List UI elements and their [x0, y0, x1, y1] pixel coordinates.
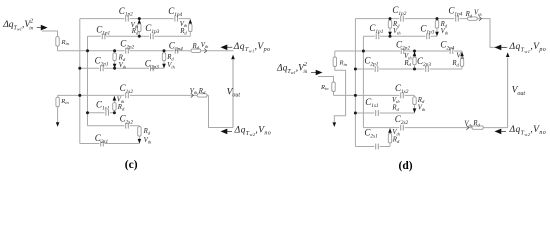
svg-text:Rd: Rd — [143, 128, 151, 135]
capacitor C2p3 — [145, 59, 159, 72]
wire rail E — [88, 125, 140, 127]
output bottom arrow dq Vno — [221, 126, 272, 138]
svg-text:Vth: Vth — [418, 104, 426, 111]
svg-text:Vth: Vth — [464, 121, 472, 128]
capacitor C1p2 (d) — [392, 5, 406, 22]
ground terminal arrow — [56, 122, 60, 127]
branch Rd Vth A-B no.1 — [113, 49, 127, 70]
capacitor C2p1 (d) — [364, 55, 379, 72]
node input label dq_Tw1 Vin2 — [2, 19, 33, 32]
capacitor C2p2 (d) — [396, 40, 410, 55]
svg-text:C1s1: C1s1 — [96, 100, 110, 112]
node junction dots buses (d) — [354, 50, 365, 115]
svg-text:Rd: Rd — [166, 54, 174, 61]
resistor Rd on rail A — [191, 42, 209, 53]
resistor Rin (d input) — [320, 82, 335, 92]
wire rail D — [88, 112, 115, 114]
wire rail D (d) — [355, 112, 414, 114]
svg-text:Vth: Vth — [144, 137, 152, 144]
wire rail B — [80, 67, 164, 69]
wire bus1 left — [79, 19, 81, 144]
resistor Rd on rail C — [190, 88, 207, 98]
svg-text:Vout: Vout — [512, 86, 526, 97]
svg-text:in: in — [29, 27, 33, 32]
wire rail C (d) — [334, 94, 415, 96]
svg-text:Vth: Vth — [392, 97, 400, 104]
svg-text:Rd: Rd — [118, 55, 126, 62]
svg-text:Vout: Vout — [227, 87, 241, 98]
svg-text:C2p2: C2p2 — [120, 39, 134, 51]
svg-text:C2p1: C2p1 — [95, 56, 109, 68]
wire rail F (d) — [355, 146, 390, 148]
svg-text:C2s2: C2s2 — [120, 114, 134, 126]
branch Rd Vth C-D — [113, 95, 126, 114]
wire rail T2 — [88, 35, 191, 37]
svg-text:C1p4: C1p4 — [168, 6, 182, 18]
capacitor C2s1 — [95, 133, 109, 146]
wire output right branch — [209, 95, 234, 127]
branch Rd Vth A-B no.1 (d) — [403, 50, 416, 71]
capacitor C1s2 — [120, 83, 134, 98]
output top arrow dq Vpo (d) — [495, 42, 547, 54]
wire rail A — [58, 50, 234, 52]
capacitor C2s1 (d) — [364, 127, 379, 149]
wire bus2 — [87, 36, 89, 125]
capacitor C1s1 — [96, 100, 110, 116]
svg-text:C2p2: C2p2 — [396, 40, 410, 52]
wire ground leg zigzag (d) — [334, 67, 345, 123]
resistor Rin (d ground leg) — [333, 51, 348, 67]
svg-text:Rin: Rin — [339, 59, 348, 66]
svg-text:Rd: Rd — [198, 88, 206, 95]
branch Rd Vth C-D (d) — [391, 95, 426, 113]
svg-text:Vth: Vth — [190, 88, 198, 95]
svg-text:C1p2: C1p2 — [119, 6, 133, 18]
capacitor C1p4 — [168, 6, 182, 22]
svg-text:Vth: Vth — [117, 96, 125, 103]
wire rail T1 (d) with output corner — [355, 19, 507, 48]
capacitor C2p4 — [169, 40, 183, 53]
svg-text:Rin: Rin — [320, 84, 329, 91]
svg-text:Rd: Rd — [465, 11, 473, 18]
resistor Rd on rail E (d) — [464, 120, 483, 130]
svg-text:C1p1: C1p1 — [96, 25, 110, 37]
wire input to lower Rin (d) — [318, 77, 334, 83]
svg-text:Vth: Vth — [474, 10, 482, 17]
resistor Rd on rail T1 (d) — [465, 10, 483, 21]
branch Rd Vth E-F — [138, 126, 152, 145]
svg-text:in: in — [303, 70, 307, 75]
wire rail A (d) — [335, 50, 462, 52]
svg-text:ΔqTw1,Vpo: ΔqTw1,Vpo — [509, 42, 547, 54]
capacitor C2p2 — [120, 39, 134, 54]
input arrow (d) — [311, 70, 323, 76]
svg-text:ΔqTw1,V2: ΔqTw1,V2 — [276, 62, 307, 75]
svg-text:ΔqTw2,Vno: ΔqTw2,Vno — [509, 125, 547, 137]
ground terminal arrow (d) — [333, 122, 337, 127]
svg-text:C1s2: C1s2 — [395, 83, 409, 95]
svg-text:C1p3: C1p3 — [420, 24, 434, 36]
wire bus1 (d) — [354, 19, 356, 147]
svg-text:Rd: Rd — [179, 28, 187, 35]
node input label dq_Tw1 Vin2 (d) — [276, 62, 308, 75]
svg-text:C1s1: C1s1 — [365, 97, 379, 109]
capacitor C1p2 — [119, 6, 133, 22]
svg-text:ΔqTw2,Vno: ΔqTw2,Vno — [234, 126, 272, 138]
svg-text:C1s2: C1s2 — [120, 83, 134, 95]
svg-text:C2p4: C2p4 — [440, 40, 454, 52]
capacitor C1p1 (d) — [369, 23, 383, 39]
Vout arrow (d) — [506, 52, 526, 127]
output bottom arrow dq Vno (d) — [495, 125, 547, 137]
svg-text:Rd: Rd — [451, 60, 459, 67]
branch Rd Vth T1-T2 no.2 (d) — [435, 17, 449, 36]
wire rail F — [80, 143, 140, 145]
svg-text:ΔqTw1,Vpo: ΔqTw1,Vpo — [233, 42, 271, 54]
svg-text:Rd: Rd — [392, 137, 400, 144]
capacitor C1s1 (d) — [365, 97, 379, 116]
svg-text:C2p1: C2p1 — [364, 55, 378, 67]
capacitor C1p3 — [145, 23, 159, 39]
wire input to Rin — [42, 31, 58, 37]
node junction dots left buses — [78, 49, 89, 114]
wire lower Rin branch — [57, 95, 59, 122]
svg-text:Vth: Vth — [393, 28, 401, 35]
branch Rd Vth T1-T2 no.1 (d) — [388, 17, 401, 38]
svg-text:Vth: Vth — [456, 53, 464, 60]
svg-text:(d): (d) — [399, 160, 413, 172]
capacitor C1p3 (d) — [420, 24, 434, 40]
svg-text:C2s2: C2s2 — [395, 114, 409, 126]
wire rail E (d) output — [363, 127, 507, 129]
wire rail C — [58, 94, 209, 96]
svg-text:Vth: Vth — [180, 21, 188, 28]
capacitor C1p1 — [96, 25, 110, 40]
wire rail T1 — [80, 18, 191, 20]
svg-text:Rd: Rd — [192, 43, 200, 50]
output top arrow dq Vpo — [221, 42, 271, 54]
svg-text:C1p2: C1p2 — [392, 5, 406, 17]
capacitor C2p1 — [95, 56, 109, 72]
branch Rd Vth T1-T2 no.2 — [179, 19, 192, 37]
wire Rin to rail C (d) — [333, 92, 335, 96]
wire Rin to rail A — [57, 46, 59, 51]
svg-text:Vth: Vth — [119, 62, 127, 69]
input arrow — [37, 25, 48, 31]
svg-text:C2p3: C2p3 — [417, 56, 431, 68]
capacitor C2p4 (d) — [440, 40, 454, 55]
svg-text:C1p4: C1p4 — [448, 6, 462, 18]
svg-text:Rd: Rd — [403, 60, 411, 67]
svg-text:Rd: Rd — [391, 104, 399, 111]
svg-text:C1p1: C1p1 — [369, 23, 383, 35]
capacitor C1p4 (d) — [448, 6, 462, 22]
svg-text:Rd: Rd — [117, 104, 125, 111]
branch Rd Vth A-B no.2 (d) — [451, 51, 464, 69]
wire bus2 (d) — [362, 36, 364, 127]
resistor Rin (lower) — [56, 97, 70, 107]
svg-text:Vth: Vth — [167, 62, 175, 69]
svg-text:C1p3: C1p3 — [145, 23, 159, 35]
svg-text:Rd: Rd — [472, 120, 480, 127]
svg-text:C2s1: C2s1 — [364, 127, 378, 139]
wire rail B (d) — [355, 68, 462, 70]
wire rail T2 (d) — [363, 35, 437, 37]
capacitor C1s2 (d) — [395, 83, 409, 98]
branch Rd Vth A-B no.2 — [162, 49, 175, 69]
branch Rd Vth E-F (d) — [388, 128, 401, 147]
svg-text:Rin: Rin — [60, 98, 69, 105]
capacitor C2s2 (d) — [395, 114, 409, 131]
svg-text:(c): (c) — [125, 159, 138, 171]
resistor Rin (top) — [56, 37, 70, 47]
capacitor C2p3 (d) — [417, 56, 431, 72]
capacitor C2s2 — [120, 114, 134, 129]
branch Rd Vth T1-T2 no.1 — [131, 17, 142, 38]
Vout arrow — [227, 55, 241, 128]
svg-text:Vth: Vth — [201, 42, 209, 49]
svg-text:Rd: Rd — [417, 97, 425, 104]
svg-text:Vth: Vth — [441, 28, 449, 35]
svg-text:Rin: Rin — [61, 39, 70, 46]
